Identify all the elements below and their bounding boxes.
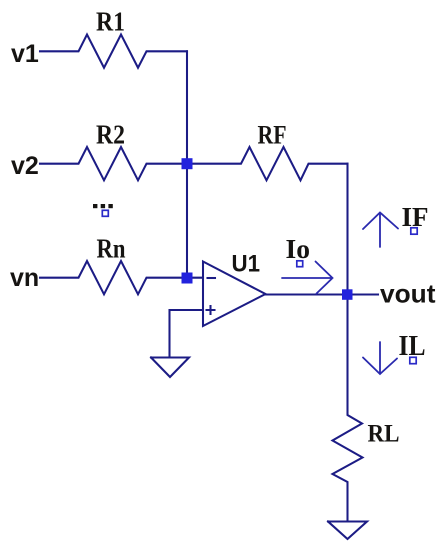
svg-text:v2: v2 (11, 152, 39, 180)
svg-text:RF: RF (258, 120, 287, 150)
svg-text:Io: Io (286, 234, 311, 264)
svg-text:Rn: Rn (97, 234, 126, 264)
svg-text:U1: U1 (232, 251, 261, 278)
svg-text:IF: IF (402, 202, 429, 232)
svg-text:vout: vout (380, 279, 436, 309)
svg-text:IL: IL (399, 331, 426, 362)
svg-text:v1: v1 (11, 40, 39, 68)
svg-text:RL: RL (368, 421, 400, 448)
svg-text:vn: vn (10, 264, 39, 292)
svg-text:R2: R2 (96, 120, 125, 150)
svg-text:R1: R1 (96, 7, 125, 37)
